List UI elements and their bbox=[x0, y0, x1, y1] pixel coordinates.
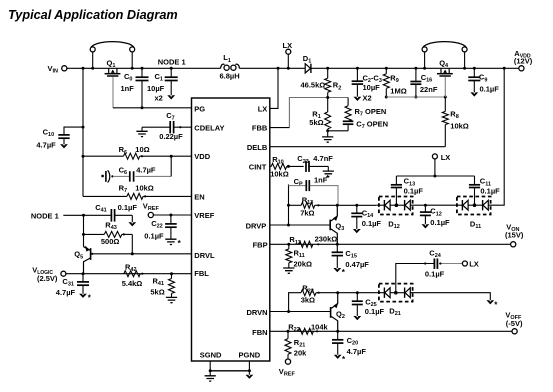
svg-text:FBP: FBP bbox=[253, 241, 268, 250]
svg-text:(2.5V): (2.5V) bbox=[37, 274, 58, 283]
svg-text:0.1µF: 0.1µF bbox=[404, 186, 424, 195]
svg-text:(12V): (12V) bbox=[514, 57, 533, 66]
diode D11 bbox=[457, 197, 491, 215]
svg-text:10µF: 10µF bbox=[147, 84, 165, 93]
wire SGND PGND bbox=[209, 361, 211, 371]
svg-text:0.1µF: 0.1µF bbox=[365, 307, 385, 316]
terminal VREF bottom bbox=[287, 354, 289, 359]
ground below R11 bbox=[288, 263, 290, 268]
svg-text:10kΩ: 10kΩ bbox=[270, 170, 289, 179]
svg-text:46.5kΩ: 46.5kΩ bbox=[301, 81, 326, 90]
svg-text:X2: X2 bbox=[363, 94, 372, 103]
svg-text:4.7µF: 4.7µF bbox=[136, 165, 156, 174]
svg-text:FBB: FBB bbox=[252, 124, 268, 133]
svg-text:LX: LX bbox=[441, 153, 451, 162]
wire Q4 gate down bbox=[444, 77, 446, 97]
diode D21 bbox=[379, 284, 413, 302]
svg-text:PGND: PGND bbox=[239, 350, 261, 359]
svg-text:10µF: 10µF bbox=[363, 83, 381, 92]
wire NODE1 branch down bbox=[83, 215, 85, 246]
svg-text:SGND: SGND bbox=[200, 350, 222, 359]
wire D1 to AVDD terminal bbox=[311, 67, 519, 69]
wire Q1 gate to PG bbox=[112, 77, 114, 108]
svg-text:4.7µF: 4.7µF bbox=[56, 288, 76, 297]
svg-text:DRVP: DRVP bbox=[246, 221, 267, 230]
svg-text:0.1µF: 0.1µF bbox=[480, 186, 500, 195]
svg-text:FBN: FBN bbox=[252, 328, 267, 337]
svg-text:6.8µH: 6.8µH bbox=[220, 72, 240, 81]
wire FBB branch bbox=[289, 98, 348, 128]
wire L1 to D1 bbox=[239, 67, 305, 69]
svg-text:4.7nF: 4.7nF bbox=[313, 154, 333, 163]
terminal LX bottom bbox=[462, 261, 467, 266]
svg-text:0.1µF: 0.1µF bbox=[425, 269, 445, 278]
wire DRVP line bbox=[270, 224, 330, 226]
svg-text:LX: LX bbox=[469, 260, 479, 269]
ground below C23 bbox=[327, 166, 329, 171]
ground below C15 bbox=[336, 256, 338, 268]
svg-text:5kΩ: 5kΩ bbox=[309, 118, 323, 127]
svg-text:230kΩ: 230kΩ bbox=[315, 235, 338, 244]
ground PGND bbox=[248, 371, 250, 375]
svg-text:10kΩ: 10kΩ bbox=[450, 121, 469, 130]
wire PG line bbox=[113, 107, 192, 109]
ground below C25 bbox=[356, 305, 358, 316]
wire VIN rail bbox=[82, 68, 84, 196]
wire FBP / VON line bbox=[270, 243, 511, 245]
svg-text:500Ω: 500Ω bbox=[101, 237, 120, 246]
ground below C1 bbox=[170, 81, 172, 96]
wire FBN / VOFF line bbox=[270, 330, 512, 332]
svg-text:x2: x2 bbox=[155, 93, 163, 102]
wire DRVL line bbox=[92, 253, 191, 255]
wire DRVN line bbox=[270, 311, 331, 313]
svg-text:10Ω: 10Ω bbox=[135, 145, 149, 154]
svg-text:CINT: CINT bbox=[249, 163, 267, 172]
svg-text:R7 OPEN: R7 OPEN bbox=[355, 107, 387, 118]
wire DELB line bbox=[270, 146, 446, 148]
ground below C31 bbox=[82, 285, 84, 293]
ground below C22 bbox=[170, 227, 172, 239]
jumper loop over Q1 bbox=[90, 47, 95, 52]
ground below C9 bbox=[473, 81, 475, 93]
ground below C20 bbox=[337, 343, 339, 355]
ground left of C7 bbox=[141, 127, 143, 131]
svg-text:0.22µF: 0.22µF bbox=[159, 132, 183, 141]
svg-text:DRVN: DRVN bbox=[246, 308, 267, 317]
svg-text:(-5V): (-5V) bbox=[506, 319, 523, 328]
wire FBB pin bbox=[270, 127, 290, 129]
svg-text:NODE 1: NODE 1 bbox=[158, 58, 186, 67]
svg-text:4.7µF: 4.7µF bbox=[347, 347, 367, 356]
svg-text:DELB: DELB bbox=[247, 143, 268, 152]
svg-text:0.47µF: 0.47µF bbox=[345, 260, 369, 269]
svg-text:1nF: 1nF bbox=[121, 84, 135, 93]
wire R43 to DRVL bbox=[131, 234, 133, 253]
svg-text:VDD: VDD bbox=[194, 152, 210, 161]
svg-text:PG: PG bbox=[194, 104, 205, 113]
wire LX mid down bbox=[434, 159, 436, 176]
svg-text:CDELAY: CDELAY bbox=[194, 124, 224, 133]
diode D12 bbox=[379, 197, 413, 215]
ground below R1 bbox=[327, 131, 329, 137]
ground SGND bbox=[209, 371, 211, 376]
ground below C10 bbox=[63, 138, 65, 144]
wire R9 C16 bottom to R8 bbox=[386, 96, 445, 98]
wire LX pin to top rail bbox=[270, 68, 278, 108]
svg-text:20k: 20k bbox=[294, 348, 307, 357]
svg-text:LX: LX bbox=[283, 41, 293, 50]
ground below C2-C3 bbox=[356, 85, 358, 97]
ground below C14 bbox=[356, 217, 358, 229]
svg-text:0.1µF: 0.1µF bbox=[430, 218, 450, 227]
wire D21 output bbox=[410, 293, 490, 301]
svg-text:10kΩ: 10kΩ bbox=[135, 184, 154, 193]
wire VIN to L1 bbox=[67, 67, 221, 69]
ground below C12 bbox=[424, 216, 426, 225]
svg-text:0.1µF: 0.1µF bbox=[118, 203, 138, 212]
svg-text:0.1µF: 0.1µF bbox=[480, 84, 500, 93]
svg-text:5.4kΩ: 5.4kΩ bbox=[122, 279, 143, 288]
ground below R41 bbox=[171, 294, 173, 298]
svg-text:VREF: VREF bbox=[194, 211, 214, 220]
svg-text:Typical Application Diagram: Typical Application Diagram bbox=[8, 8, 178, 22]
svg-text:0.1µF: 0.1µF bbox=[144, 231, 164, 240]
svg-text:7kΩ: 7kΩ bbox=[300, 208, 314, 217]
wire VLOGIC line bbox=[66, 273, 192, 275]
wire charge pump top line bbox=[396, 175, 474, 177]
svg-text:22nF: 22nF bbox=[420, 85, 438, 94]
svg-text:4.7µF: 4.7µF bbox=[36, 140, 56, 149]
svg-text:(15V): (15V) bbox=[505, 231, 524, 240]
wire D11 to AVDD rail bbox=[488, 68, 504, 205]
svg-text:1MΩ: 1MΩ bbox=[390, 87, 406, 96]
svg-text:LX: LX bbox=[258, 104, 268, 113]
svg-text:0.1µF: 0.1µF bbox=[362, 219, 382, 228]
svg-text:EN: EN bbox=[194, 193, 204, 202]
wire VREF to IC bbox=[153, 214, 191, 216]
svg-text:20kΩ: 20kΩ bbox=[294, 260, 313, 269]
svg-text:NODE 1: NODE 1 bbox=[31, 211, 59, 220]
op-amp U1 (IC box) bbox=[192, 98, 270, 361]
svg-text:FBL: FBL bbox=[194, 269, 209, 278]
ground right of C41 bbox=[131, 215, 133, 222]
svg-text:DRVL: DRVL bbox=[194, 251, 215, 260]
svg-text:5kΩ: 5kΩ bbox=[150, 288, 164, 297]
svg-text:3kΩ: 3kΩ bbox=[301, 296, 315, 305]
svg-text:104k: 104k bbox=[311, 322, 329, 331]
jumper loop over Q4 bbox=[422, 47, 427, 52]
